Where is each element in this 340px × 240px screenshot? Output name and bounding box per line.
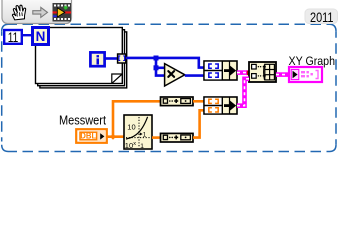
page fold [112,74,122,83]
wire to multiply top input [156,67,165,70]
bundle arrow [224,66,236,76]
junction dot A [154,56,159,61]
svg-text:x: x [133,141,136,147]
cluster wire build array to xy graph [276,72,289,77]
CJ glyphs row1 [209,64,218,77]
for loop front frame [36,28,123,84]
wire 10^x to lower element node [152,136,161,139]
numeric constant 11 [4,30,22,45]
wire i to tunnel [105,57,118,60]
multiply function [165,64,185,86]
svg-text:N: N [36,29,46,44]
wire multiply to bundle (y value) [185,74,204,77]
build array [249,62,276,82]
2011 badge [305,9,338,25]
orange wires from DBL [107,135,124,138]
wire lower node to bundle2 [193,110,204,137]
svg-text:Messwert: Messwert [59,112,106,127]
coercion dot [247,70,251,75]
power of 10 node [124,115,152,150]
svg-text:1: 1 [143,132,147,139]
arrow icon [33,7,48,17]
cluster wire bundle1 to build array [237,70,249,75]
hand tool icon [12,5,27,20]
for loop middle frame [38,30,125,86]
wire 11 to N [22,34,32,36]
build-array element node (lower) [161,133,194,142]
svg-text:2011: 2011 [310,9,334,25]
svg-text:10: 10 [125,141,133,150]
toolbar [2,0,72,24]
tunnel on loop border [118,54,126,63]
N count terminal [33,28,49,45]
XY Graph terminal [289,67,322,82]
bundle 2 [204,97,237,114]
cluster wire bundle2 to build array [237,79,249,106]
vi icon [53,3,72,22]
for loop back frame [40,32,127,88]
junction dot B [154,65,159,70]
orange junction [110,134,116,140]
bundle 1 [204,61,237,80]
riser to upper build-array-element node [113,101,161,136]
dashed figure border [2,24,336,151]
wire branch down to multiply [156,58,165,76]
wire upper node to bundle2 [193,100,204,103]
wire tunnel to bundle (x value) [126,58,204,68]
svg-text:DBL: DBL [80,132,96,141]
i iteration terminal [90,52,104,66]
build-array element node (upper) [161,97,194,106]
DBL control terminal [76,129,107,143]
svg-text:11: 11 [8,30,18,45]
svg-text:10: 10 [127,122,135,131]
svg-text:1: 1 [140,143,144,150]
